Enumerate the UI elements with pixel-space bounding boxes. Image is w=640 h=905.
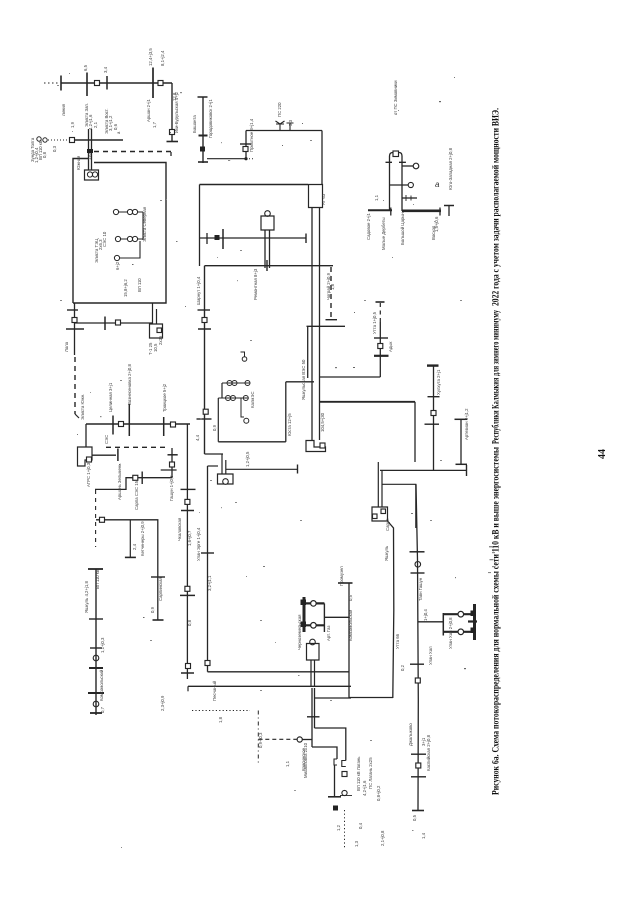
svg-text:3,4: 3,4 xyxy=(103,66,108,73)
svg-text:Черноземельская: Черноземельская xyxy=(297,614,302,650)
gen circle low xyxy=(244,418,249,423)
breaker SQ22 xyxy=(431,411,436,416)
breaker SQ26 xyxy=(416,763,421,768)
node T-bar top xyxy=(198,96,208,98)
breaker dark xyxy=(200,147,205,152)
breaker SQ7 xyxy=(87,457,92,462)
breaker SQ25 xyxy=(415,678,420,683)
svg-text:Улан Хол: Улан Хол xyxy=(428,646,433,665)
wire dotted xyxy=(48,139,68,141)
svg-text:Башанта: Башанта xyxy=(192,115,197,133)
wire link to pair xyxy=(302,739,312,741)
wire dashed tie2 xyxy=(106,446,168,448)
node junction tick xyxy=(266,260,268,271)
svg-text:ВЛ 110 кВ: ВЛ 110 кВ xyxy=(95,569,100,589)
svg-text:Вознесеновка 2+j0,8: Вознесеновка 2+j0,8 xyxy=(127,363,132,405)
wire bold stub1 xyxy=(443,613,472,615)
bus riser 381 T-top xyxy=(376,301,385,303)
wire jog 484 xyxy=(382,484,416,528)
transformer T5 stem pair xyxy=(265,230,270,268)
node crossing bar xyxy=(104,317,106,331)
svg-text:1,7: 1,7 xyxy=(152,121,157,128)
bus cluster west bold bar xyxy=(303,597,306,632)
svg-text:Юго-Западная 2+j0,8: Юго-Западная 2+j0,8 xyxy=(448,147,453,190)
wire dashed drop xyxy=(330,267,332,319)
junction dark xyxy=(333,806,338,811)
node tick xyxy=(340,795,352,797)
svg-text:а: а xyxy=(116,131,121,134)
breaker SQ21 xyxy=(378,344,383,349)
svg-text:Малые Дербеты: Малые Дербеты xyxy=(381,217,386,250)
bus Yashkul vertical xyxy=(95,569,97,715)
svg-text:1,6+j0,7: 1,6+j0,7 xyxy=(187,530,192,546)
transformer T2 boot xyxy=(150,324,163,338)
transformer stem pair xyxy=(222,454,226,474)
svg-text:1,1: 1,1 xyxy=(285,760,290,767)
transformer box T4 xyxy=(309,185,323,208)
svg-text:0,6: 0,6 xyxy=(113,123,118,130)
breaker SQ2 xyxy=(158,81,163,86)
svg-text:Яшкульская ВЭС 50: Яшкульская ВЭС 50 xyxy=(301,359,306,400)
node end tick xyxy=(297,465,299,474)
svg-text:a: a xyxy=(435,180,440,189)
svg-text:1,4: 1,4 xyxy=(421,832,426,839)
wire stub to circle2 xyxy=(390,184,409,186)
generator cluster row1 xyxy=(222,382,250,384)
bus mid vertical 433 xyxy=(433,366,435,470)
wire link to node xyxy=(207,158,246,160)
svg-text:12,4+j3,5: 12,4+j3,5 xyxy=(148,48,153,66)
node bus bar xyxy=(442,613,444,636)
breaker SQ5 xyxy=(72,318,77,323)
svg-text:АТ 63: АТ 63 xyxy=(321,193,326,205)
generator G row1 circle xyxy=(113,209,118,214)
svg-text:Промузел: Промузел xyxy=(339,566,344,586)
gen circle xyxy=(226,396,231,401)
node end bar xyxy=(60,76,62,91)
svg-text:0,9: 0,9 xyxy=(212,424,217,431)
bus line west vertical xyxy=(186,424,188,679)
svg-text:Хулхута 2+j1: Хулхута 2+j1 xyxy=(436,369,441,395)
transformer T1 circles xyxy=(87,172,92,177)
svg-text:0,3: 0,3 xyxy=(52,145,57,152)
wire link to pair xyxy=(286,381,314,383)
disconnector circle xyxy=(93,655,99,661)
gen circle xyxy=(245,381,250,386)
svg-text:линия: линия xyxy=(61,103,66,116)
wire pair drop west xyxy=(378,462,382,507)
svg-text:44: 44 xyxy=(597,449,608,459)
bus bold left xyxy=(368,209,392,211)
disconnector circle xyxy=(297,737,302,742)
breaker dark xyxy=(471,628,477,634)
node cross tick xyxy=(161,469,177,471)
node T-tick xyxy=(402,197,417,199)
svg-text:6,5: 6,5 xyxy=(83,64,88,71)
breaker SQ6 xyxy=(116,320,121,325)
node crossing bar xyxy=(106,76,108,90)
node end bar xyxy=(153,619,164,621)
node tick xyxy=(89,618,103,620)
junction mark xyxy=(468,620,477,622)
svg-text:4,4: 4,4 xyxy=(195,434,200,441)
wire right vertical drop xyxy=(171,83,173,142)
svg-text:15,8+j6,2: 15,8+j6,2 xyxy=(123,279,128,297)
svg-text:Аршань Зельмень: Аршань Зельмень xyxy=(117,463,122,500)
breaker SQ27 xyxy=(342,772,347,777)
junction dot xyxy=(244,157,247,160)
wire right drop xyxy=(321,131,323,185)
wire left drop xyxy=(199,185,201,267)
wire south stub xyxy=(334,765,336,797)
svg-text:Яшкуль: Яшкуль xyxy=(384,545,389,561)
svg-text:Юста 12+j5: Юста 12+j5 xyxy=(287,413,292,436)
svg-text:Садовое 2+j1: Садовое 2+j1 xyxy=(366,213,371,240)
node end bar xyxy=(198,161,208,163)
wire dashed run xyxy=(258,738,296,740)
svg-text:Кетченеры 2+j0,9: Кетченеры 2+j0,9 xyxy=(140,521,145,556)
node tall crossing bar xyxy=(128,404,130,436)
gen stem xyxy=(241,398,244,417)
node bar xyxy=(180,594,195,596)
svg-text:Утта 66: Утта 66 xyxy=(395,633,400,649)
transformer T8 boot xyxy=(372,507,388,521)
node end bar xyxy=(412,810,424,812)
wire mid-left bus xyxy=(86,423,190,425)
svg-text:Лола: Лола xyxy=(64,341,69,352)
node crossing bar xyxy=(141,472,143,485)
svg-text:2,1: 2,1 xyxy=(93,121,98,128)
wire left drop below box xyxy=(74,303,76,355)
svg-text:0,9: 0,9 xyxy=(150,606,155,613)
transformer T1 circles xyxy=(92,172,97,177)
wire dotted west run xyxy=(192,710,250,712)
svg-text:Утта 1+j0,5: Утта 1+j0,5 xyxy=(372,311,377,334)
node T-bar xyxy=(410,551,425,553)
node crossing bar xyxy=(163,417,165,436)
generator stem pair xyxy=(311,660,315,687)
breaker SQ4 xyxy=(70,138,75,143)
substation box left notch xyxy=(73,159,88,304)
wire sub-bus vertical xyxy=(171,448,173,478)
svg-text:Городовиковск 2+j1: Городовиковск 2+j1 xyxy=(208,99,213,138)
svg-text:2,1+j0,8: 2,1+j0,8 xyxy=(380,830,385,846)
node T-bar top xyxy=(88,568,103,570)
svg-text:Чкаловская: Чкаловская xyxy=(177,517,182,541)
svg-text:ВЛ 110 кВ Лагань: ВЛ 110 кВ Лагань xyxy=(356,756,361,791)
svg-text:4,2+j1,6: 4,2+j1,6 xyxy=(362,780,367,796)
node tick xyxy=(307,716,320,718)
generator G row2 pair xyxy=(132,236,137,241)
wire bold feeder xyxy=(320,401,415,403)
svg-text:Шарнут 1+j0,4: Шарнут 1+j0,4 xyxy=(196,276,201,305)
svg-text:Элиста Северная: Элиста Северная xyxy=(142,206,147,242)
svg-text:ПС 220: ПС 220 xyxy=(277,102,282,117)
transformer T5 boot xyxy=(261,216,274,230)
svg-text:Улан Хол 2+j0,8: Улан Хол 2+j0,8 xyxy=(448,617,453,649)
breaker SQ10 xyxy=(170,462,175,467)
bus bold right xyxy=(473,604,476,640)
breaker SQ19 xyxy=(186,664,191,669)
wire box top edge xyxy=(307,325,346,327)
svg-text:Артезиан 3+j1,2: Артезиан 3+j1,2 xyxy=(464,408,469,440)
node end bar xyxy=(90,712,102,714)
svg-text:12,8: 12,8 xyxy=(172,92,177,101)
breaker SQ3 xyxy=(170,130,175,135)
node crossing bar xyxy=(86,73,88,97)
substation box main outline xyxy=(73,163,166,304)
gen circle xyxy=(227,381,232,386)
node bold cross xyxy=(374,355,389,357)
gen circle xyxy=(243,396,248,401)
gen circle xyxy=(231,396,236,401)
node tall bar xyxy=(222,229,224,249)
bus small right xyxy=(448,206,450,217)
transformer pair drop xyxy=(312,208,320,440)
svg-text:Комсомольская: Комсомольская xyxy=(348,609,353,641)
wire riser solid xyxy=(379,322,381,377)
wire branch down xyxy=(129,520,131,558)
svg-text:0,8+j0,2: 0,8+j0,2 xyxy=(376,785,381,801)
wire hline 238 xyxy=(200,237,307,239)
breaker SQ8 xyxy=(119,422,124,427)
svg-text:СЭС: СЭС xyxy=(104,435,109,444)
svg-text:Сарул: Сарул xyxy=(385,518,390,531)
capacitor circles xyxy=(43,138,47,142)
svg-text:0,8: 0,8 xyxy=(187,619,192,626)
disconnector circle xyxy=(413,163,419,169)
node tick xyxy=(90,647,102,649)
wire corner to boot xyxy=(205,453,224,455)
disconnector circle xyxy=(93,701,99,707)
bus stem with T xyxy=(348,583,350,698)
breaker dark xyxy=(301,622,307,628)
generator circle top xyxy=(310,639,316,645)
svg-text:Сарпа СЭС 15: Сарпа СЭС 15 xyxy=(134,480,139,510)
transformer bracket T9 xyxy=(386,153,406,163)
generator G row1 pair xyxy=(132,209,137,214)
svg-text:0,5: 0,5 xyxy=(348,594,353,601)
gen right riser xyxy=(285,382,287,442)
wire long south line2 xyxy=(416,484,418,810)
svg-text:Гашун 1+j0,3: Гашун 1+j0,3 xyxy=(169,475,174,501)
wire bold stub2 xyxy=(443,631,472,633)
node T-bar xyxy=(167,141,179,143)
svg-text:Яшкуль 4,2+j1,8: Яшкуль 4,2+j1,8 xyxy=(84,581,89,613)
generator G row2 circle xyxy=(115,236,120,241)
wire long south line xyxy=(388,521,394,698)
svg-text:Приютное 3+j1,4: Приютное 3+j1,4 xyxy=(249,118,254,152)
disconnector circle xyxy=(408,182,413,187)
node tick xyxy=(411,776,426,778)
svg-text:1,1: 1,1 xyxy=(374,194,379,201)
svg-text:от ПС Зимовники: от ПС Зимовники xyxy=(393,80,398,115)
transformer T1 boot xyxy=(85,170,99,180)
node tick xyxy=(67,309,78,311)
svg-text:2,3+j0,9: 2,3+j0,9 xyxy=(160,695,165,711)
substation top edge xyxy=(200,184,309,186)
breaker SQ11 xyxy=(133,475,138,480)
breaker in boot xyxy=(157,328,162,333)
wire top run xyxy=(246,130,322,132)
svg-text:Сарпинская: Сарпинская xyxy=(158,576,163,601)
breaker SQ16 xyxy=(205,661,210,666)
svg-text:0,8: 0,8 xyxy=(42,151,47,158)
svg-text:1,5+j0,6: 1,5+j0,6 xyxy=(434,216,439,232)
node cross tick xyxy=(428,396,440,398)
svg-text:3,2+j1,1: 3,2+j1,1 xyxy=(207,575,212,591)
node T-bar xyxy=(455,418,468,420)
bracket leg right xyxy=(401,162,403,211)
wire dash hook xyxy=(75,414,79,418)
wire corner run 728 xyxy=(315,728,346,761)
svg-text:АГРС 1+j0,3: АГРС 1+j0,3 xyxy=(86,462,91,487)
disconnector circle xyxy=(458,611,464,617)
svg-text:КалмЭС: КалмЭС xyxy=(250,391,255,408)
svg-text:Улан Эрге 1+j0,4: Улан Эрге 1+j0,4 xyxy=(196,527,201,561)
breaker SQ23 xyxy=(373,514,378,519)
svg-text:6+j2: 6+j2 xyxy=(115,261,120,270)
wire bold stub xyxy=(304,624,324,626)
svg-text:1,3: 1,3 xyxy=(354,840,359,847)
disconnector circle xyxy=(415,562,421,568)
svg-text:0,5: 0,5 xyxy=(412,814,417,821)
breaker SQ20 xyxy=(320,443,325,448)
svg-text:Аршан 2+j1: Аршан 2+j1 xyxy=(146,98,151,122)
svg-text:Республики Калмыкия для зимнег: Республики Калмыкия для зимнего минимуму xyxy=(491,310,501,444)
disconnector circle xyxy=(342,790,347,795)
breaker SQ13 xyxy=(243,147,248,152)
svg-text:1,2+j0,5: 1,2+j0,5 xyxy=(245,451,250,467)
svg-text:Песчаный: Песчаный xyxy=(212,680,217,701)
node T-bar xyxy=(117,449,119,462)
wire dotted south xyxy=(344,810,346,848)
node dash end tick xyxy=(326,319,338,321)
wire corner west xyxy=(320,376,380,378)
node T-bar xyxy=(66,328,84,330)
breaker SQ9 xyxy=(171,422,176,427)
node tick xyxy=(206,233,208,244)
svg-text:0,4: 0,4 xyxy=(358,822,363,829)
disconnector circle xyxy=(311,601,317,607)
svg-text:ВЛ 110: ВЛ 110 xyxy=(137,278,142,292)
node tick xyxy=(240,143,251,145)
transformer feeder double line xyxy=(89,129,92,170)
wire gen row2 xyxy=(120,238,143,240)
wire feeder right xyxy=(226,468,298,470)
disconnector circle xyxy=(458,629,464,635)
breaker SQ1 xyxy=(95,81,100,86)
node tick xyxy=(198,309,211,311)
wire left stub xyxy=(92,454,116,456)
node tick xyxy=(411,753,426,755)
breaker dark xyxy=(471,611,477,617)
node end stub xyxy=(390,208,392,216)
wire feeder east xyxy=(324,616,349,618)
wire dashed seg xyxy=(379,303,381,322)
generator G row1 pair xyxy=(127,209,132,214)
node tick xyxy=(410,663,424,665)
wire main left drop xyxy=(204,266,206,454)
node tick xyxy=(197,418,212,420)
breaker dark xyxy=(215,235,220,240)
wire east run 698 xyxy=(315,697,352,699)
scan speckles xyxy=(489,546,493,547)
wire dotted left stub xyxy=(44,82,60,84)
node T-bar xyxy=(198,328,211,330)
svg-text:Большой Царын: Большой Царын xyxy=(400,212,405,245)
wire dashdot drop xyxy=(257,711,259,766)
wire bold stub xyxy=(304,602,324,604)
svg-text:Целинная 3+j1: Целинная 3+j1 xyxy=(108,382,113,412)
transformer T3 boot xyxy=(78,447,93,466)
node tick xyxy=(181,488,196,490)
svg-text:2,4: 2,4 xyxy=(132,543,137,550)
svg-text:Тавн Гашун: Тавн Гашун xyxy=(418,577,423,601)
svg-text:1+j0,4: 1+j0,4 xyxy=(423,609,428,621)
wire south run xyxy=(188,685,351,687)
gen bottom run xyxy=(218,441,285,443)
node T-bar top xyxy=(338,582,353,584)
breaker SQ24 xyxy=(381,509,386,514)
wire top-left bus horizontal xyxy=(61,82,173,84)
generator G row2 pair xyxy=(127,236,132,241)
svg-text:1,9: 1,9 xyxy=(70,121,75,128)
wire boot drop xyxy=(85,424,87,447)
step shape xyxy=(334,759,346,767)
transformer pair south xyxy=(312,688,315,747)
wire main 265 run xyxy=(205,265,334,267)
disconnector circle hook xyxy=(242,357,247,362)
svg-text:0,9+j0,3: 0,9+j0,3 xyxy=(258,732,263,748)
wire stub to circle xyxy=(402,165,413,167)
breaker SQ15 xyxy=(203,409,208,414)
node cross tick xyxy=(425,423,440,425)
bus isolated 461 xyxy=(460,419,462,464)
svg-text:Южная: Южная xyxy=(76,155,81,170)
wire cross run 470 xyxy=(380,469,467,471)
wire drop to 462 xyxy=(414,402,416,462)
transformer T5 top circle xyxy=(265,211,271,217)
svg-text:Михайловка 2х10: Михайловка 2х10 xyxy=(303,742,308,778)
wire cluster right vert xyxy=(323,603,325,632)
svg-text:104,5+j30: 104,5+j30 xyxy=(320,412,325,432)
wire corner east run xyxy=(208,671,350,673)
node end tick xyxy=(305,234,307,244)
wire dotted stub xyxy=(246,158,254,160)
breaker SQ18 xyxy=(185,586,190,591)
svg-text:СЭС 10: СЭС 10 xyxy=(102,231,107,247)
wire gen vertical xyxy=(142,212,144,240)
disconnector circle xyxy=(223,479,229,485)
capacitor circles xyxy=(37,137,41,141)
wire second bus xyxy=(70,139,123,141)
node small marks xyxy=(406,195,411,201)
wire corner run 747 xyxy=(312,747,337,759)
bus top-center vertical xyxy=(202,97,204,163)
node T-bar xyxy=(444,205,454,207)
breaker SQ12 xyxy=(100,517,105,522)
wire branch east 621 xyxy=(418,621,443,623)
node bold bar xyxy=(89,667,103,669)
bus bold right xyxy=(402,210,441,213)
node bold tick xyxy=(199,135,208,137)
svg-text:Рисунок 6а. Схема потокораспре: Рисунок 6а. Схема потокораспределения дл… xyxy=(491,447,501,795)
node T-bar xyxy=(125,556,136,558)
svg-text:Комсомольский: Комсомольский xyxy=(99,669,104,701)
node tall crossing bar xyxy=(152,68,154,99)
svg-text:2022 года с учетом задачи расп: 2022 года с учетом задачи располагаемой … xyxy=(491,108,501,306)
